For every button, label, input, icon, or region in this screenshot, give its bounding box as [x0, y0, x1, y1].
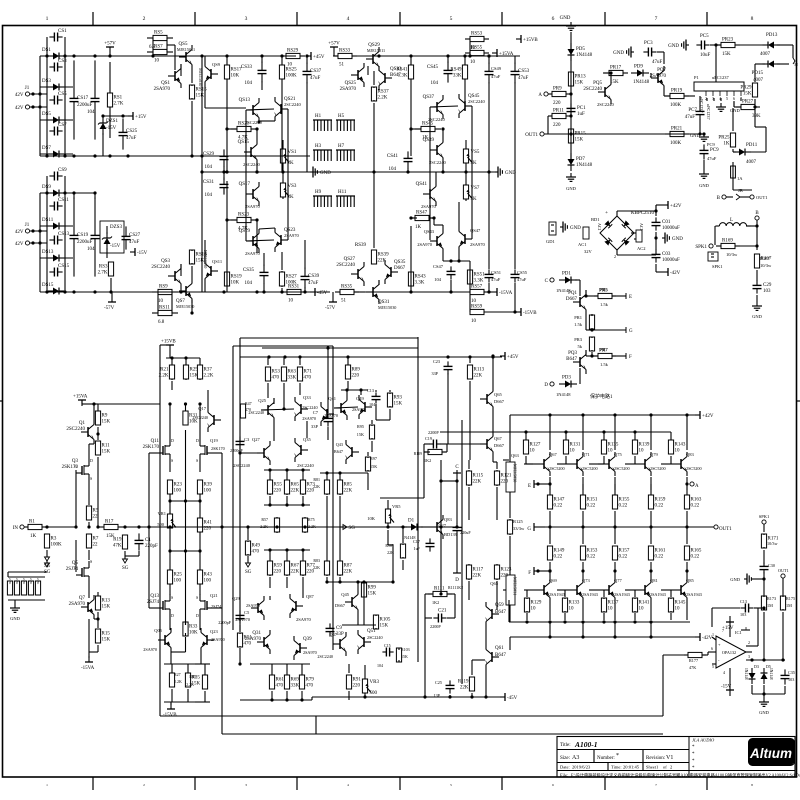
- transistor QS31: [366, 291, 373, 293]
- svg-text:CS13: CS13: [58, 232, 70, 237]
- wire mid bus: [202, 171, 310, 173]
- capacitor C15: [382, 651, 386, 653]
- svg-text:RS3: RS3: [99, 265, 108, 270]
- wire q13 gate: [149, 607, 157, 609]
- resistor R77: [302, 560, 304, 561]
- svg-text:2SC2240: 2SC2240: [317, 654, 333, 659]
- svg-text:IC1: IC1: [735, 630, 742, 635]
- svg-text:R33: R33: [189, 625, 198, 630]
- resistor RS9: [152, 291, 158, 293]
- svg-text:R111: R111: [434, 587, 445, 592]
- svg-text:R21: R21: [160, 368, 169, 373]
- resistor RS37: [373, 87, 375, 88]
- power +15V a: [128, 115, 133, 117]
- svg-text:100K: 100K: [286, 74, 298, 79]
- svg-text:H9: H9: [315, 190, 322, 195]
- resistor RS41: [410, 63, 412, 65]
- svg-text:2SA970: 2SA970: [340, 87, 357, 92]
- transistor QS1: [168, 75, 175, 77]
- svg-text:2: 2: [143, 16, 146, 22]
- svg-text:-45V: -45V: [317, 291, 328, 296]
- diode D3: [751, 668, 753, 673]
- ic pin wires: [699, 96, 701, 107]
- ground mid1: [310, 171, 313, 173]
- wire q21 gate: [213, 607, 222, 609]
- trimmer VR1: [169, 512, 171, 514]
- resistor R157: [614, 545, 616, 547]
- resistor R61: [271, 674, 273, 676]
- svg-text:A100-1: A100-1: [574, 740, 598, 749]
- ground pc5: [686, 44, 689, 46]
- svg-text:C3: C3: [244, 437, 250, 442]
- svg-text:PD7: PD7: [576, 157, 585, 162]
- svg-text:1A: 1A: [737, 176, 743, 181]
- svg-text:100: 100: [174, 579, 182, 584]
- transistor Q23b: [207, 639, 214, 641]
- svg-text:220: 220: [274, 489, 282, 494]
- svg-text:10: 10: [471, 319, 477, 324]
- wire rs911 l: [157, 292, 159, 313]
- svg-text:Q17: Q17: [198, 406, 206, 411]
- capacitor CS37: [306, 62, 308, 71]
- svg-text:RS31: RS31: [288, 285, 300, 290]
- svg-text:+15VA: +15VA: [499, 52, 514, 57]
- svg-text:Q13: Q13: [150, 594, 159, 599]
- svg-text:2: 2: [143, 783, 145, 787]
- wire qs13-21 base: [246, 109, 274, 110]
- dots d3d5: [750, 658, 753, 661]
- resistor RS39: [373, 249, 375, 251]
- wire pd15: [777, 63, 789, 65]
- transistor QS9: [211, 73, 218, 75]
- svg-text:QS35: QS35: [394, 260, 406, 265]
- svg-text:+57V: +57V: [328, 42, 340, 47]
- capacitor C9: [329, 623, 331, 628]
- svg-text:2.2K: 2.2K: [378, 96, 388, 101]
- svg-text:R123: R123: [501, 568, 512, 573]
- J1 pin1: [25, 92, 29, 96]
- IC P1 uPC1237: [694, 82, 744, 91]
- svg-text:4.7K: 4.7K: [238, 227, 248, 232]
- svg-text:51: 51: [339, 63, 345, 68]
- svg-text:PQ3: PQ3: [568, 351, 577, 356]
- svg-text:C19: C19: [425, 436, 432, 441]
- svg-text:104: 104: [205, 165, 213, 170]
- svg-text:Number:: Number:: [597, 756, 615, 761]
- svg-text:R57: R57: [261, 517, 268, 522]
- svg-text:C9: C9: [336, 626, 342, 631]
- svg-text:CS5: CS5: [58, 92, 67, 97]
- transistor PQ7: [651, 77, 658, 79]
- wire qs5 base: [180, 64, 182, 76]
- svg-text:R99: R99: [368, 586, 377, 591]
- svg-text:QS41: QS41: [416, 182, 428, 187]
- svg-text:47K: 47K: [113, 544, 122, 549]
- resistor RS25: [281, 63, 283, 65]
- transistor QS29: [366, 58, 373, 60]
- svg-text:Q33: Q33: [303, 395, 311, 400]
- svg-text:MJE15011: MJE15011: [367, 48, 385, 53]
- svg-text:0.22: 0.22: [587, 555, 596, 560]
- svg-text:GND: GND: [672, 237, 683, 242]
- svg-text:B647: B647: [566, 357, 577, 362]
- svg-text:1M: 1M: [786, 603, 792, 608]
- svg-text:R103: R103: [401, 647, 410, 652]
- svg-text:R125: R125: [513, 519, 524, 524]
- diode DS15: [48, 290, 53, 292]
- svg-text:H11: H11: [338, 190, 347, 195]
- svg-text:3: 3: [245, 783, 247, 787]
- svg-text:10K: 10K: [367, 516, 376, 521]
- resistor R135: [603, 439, 605, 441]
- wire bus top: [40, 55, 296, 57]
- wire f row: [586, 355, 598, 357]
- wire qs9: [204, 56, 206, 62]
- node OUT1 conn main: [714, 525, 718, 529]
- svg-text:R11: R11: [102, 444, 111, 449]
- wire pd13: [735, 44, 763, 46]
- svg-text:103: 103: [788, 677, 794, 682]
- svg-text:1N4148: 1N4148: [556, 392, 571, 397]
- svg-text:RS21: RS21: [238, 122, 250, 127]
- svg-text:33P: 33P: [336, 632, 344, 637]
- connector E: [612, 295, 626, 297]
- svg-text:-45V: -45V: [507, 696, 518, 701]
- svg-text:Q31: Q31: [252, 631, 261, 636]
- svg-text:100: 100: [204, 579, 212, 584]
- svg-text:G: G: [527, 527, 531, 532]
- svg-text:QS13: QS13: [239, 98, 251, 103]
- resistor R163: [686, 494, 688, 496]
- resistor R155: [614, 494, 616, 496]
- svg-text:RS53: RS53: [471, 32, 483, 37]
- svg-text:2: 2: [670, 765, 672, 770]
- resistor RS7: [147, 51, 153, 53]
- svg-text:QS17: QS17: [239, 182, 251, 187]
- svg-text:104: 104: [245, 81, 253, 86]
- svg-text:QS47: QS47: [470, 228, 481, 233]
- svg-text:10: 10: [675, 449, 681, 454]
- svg-text:PQ7: PQ7: [657, 68, 666, 73]
- svg-text:R109: R109: [414, 452, 422, 456]
- resistor RS23: [231, 219, 237, 221]
- svg-text:15K: 15K: [196, 94, 205, 99]
- power +42V bridge: [663, 204, 668, 206]
- transistor Q59: [492, 613, 499, 615]
- svg-text:SG: SG: [122, 566, 129, 571]
- connector GD1: [549, 222, 556, 235]
- resistor RS21: [231, 128, 237, 130]
- power +15VA b: [81, 400, 83, 406]
- svg-text:51: 51: [341, 299, 347, 304]
- transistor Q39: [300, 647, 307, 649]
- junctions bus2: [409, 54, 412, 57]
- resistor PR23: [716, 44, 721, 46]
- wire qs19-23 base: [246, 240, 274, 241]
- resistor R41: [199, 517, 201, 519]
- svg-text:2200uF: 2200uF: [77, 240, 93, 245]
- svg-text:+42V: +42V: [670, 204, 682, 209]
- svg-text:QS39: QS39: [423, 138, 435, 143]
- svg-text:GND: GND: [566, 186, 576, 191]
- svg-text:3.3K: 3.3K: [474, 279, 484, 284]
- svg-text:1: 1: [46, 16, 49, 22]
- resistor R141: [634, 598, 636, 599]
- svg-text:PQ1: PQ1: [568, 291, 577, 296]
- svg-text:3: 3: [245, 16, 248, 22]
- svg-text:VS3: VS3: [288, 184, 297, 189]
- svg-text:D: D: [171, 613, 174, 618]
- svg-text:RS57: RS57: [471, 285, 483, 290]
- capacitor CS5: [49, 99, 54, 101]
- svg-text:D667: D667: [566, 297, 578, 302]
- wire mid column x185: [185, 430, 187, 617]
- wire bus bottom: [40, 155, 310, 157]
- resistor RS15: [191, 85, 193, 86]
- dots bus292 ext: [409, 290, 412, 293]
- svg-text:C17: C17: [413, 539, 420, 544]
- diode 56: [48, 55, 53, 57]
- resistor R47: [242, 403, 244, 405]
- svg-text:-15VB: -15VB: [163, 713, 177, 718]
- dots row2: [275, 525, 278, 528]
- diode PD13: [762, 44, 768, 46]
- wire r-tops: [166, 357, 200, 359]
- svg-text:-57V: -57V: [325, 306, 336, 311]
- svg-text:2SC2240: 2SC2240: [233, 463, 251, 468]
- svg-text:Title:: Title:: [560, 743, 571, 748]
- wire q19 gate: [213, 452, 222, 454]
- svg-text:B647: B647: [334, 449, 343, 454]
- svg-text:220uF: 220uF: [460, 530, 471, 535]
- svg-text:R87: R87: [344, 564, 353, 569]
- svg-text:H7: H7: [338, 144, 345, 149]
- wire -42V rail: [510, 636, 697, 638]
- svg-text:CS39: CS39: [308, 274, 320, 279]
- svg-text:10: 10: [471, 299, 477, 304]
- svg-text:D: D: [171, 438, 174, 443]
- svg-text:2SC2240: 2SC2240: [284, 102, 302, 107]
- resistor R33: [185, 622, 187, 625]
- svg-text:2SC2240: 2SC2240: [66, 427, 85, 432]
- frame tick left: [0, 400, 3, 402]
- svg-text:3.3K: 3.3K: [415, 281, 425, 286]
- ground ic: [720, 103, 722, 107]
- svg-text:4: 4: [723, 670, 725, 675]
- capacitor C25: [449, 680, 451, 685]
- wire pc5: [710, 44, 721, 46]
- transistor QS37: [430, 106, 437, 108]
- svg-text:6: 6: [733, 96, 735, 101]
- svg-text:32: 32: [794, 62, 798, 67]
- svg-text:R9: R9: [102, 414, 108, 419]
- capacitor CS33: [261, 61, 263, 70]
- svg-text:RS7: RS7: [154, 45, 163, 50]
- svg-text:Q11: Q11: [151, 439, 160, 444]
- resistor R129: [526, 598, 528, 599]
- frame ticks top: [92, 12, 94, 26]
- svg-text:GND: GND: [730, 577, 740, 582]
- resistor RS17: [226, 63, 228, 65]
- resistor R93: [389, 393, 391, 394]
- svg-text:C1: C1: [145, 538, 151, 543]
- svg-text:2SC5200: 2SC5200: [614, 466, 630, 471]
- resistor RS59: [469, 311, 471, 313]
- jfet Q13: [157, 607, 163, 609]
- transistor QS41: [423, 193, 430, 195]
- svg-text:Q59: Q59: [495, 603, 504, 608]
- svg-text:R69: R69: [291, 678, 300, 683]
- svg-text:R71: R71: [304, 370, 313, 375]
- svg-text:PR27: PR27: [742, 100, 754, 105]
- input filter resistor bank: [8, 576, 45, 578]
- power +45V node1: [306, 55, 311, 57]
- svg-text:20:01:45: 20:01:45: [623, 765, 640, 770]
- wire ladder 1: [40, 86, 73, 88]
- junction dots psu1 bus: [38, 92, 41, 95]
- resistor R87: [339, 560, 341, 561]
- svg-text:F: F: [629, 355, 632, 360]
- svg-text:2SK170: 2SK170: [143, 445, 160, 450]
- svg-text:0.22: 0.22: [554, 555, 563, 560]
- capacitor CS7: [49, 130, 54, 132]
- resistor R45b: [204, 674, 206, 676]
- svg-text:15K: 15K: [722, 52, 731, 57]
- svg-text:R157: R157: [619, 549, 630, 554]
- diode DS11: [48, 225, 53, 227]
- svg-text:10: 10: [288, 299, 294, 304]
- svg-text:uPC1237: uPC1237: [706, 104, 711, 120]
- svg-text:C29: C29: [763, 283, 772, 288]
- svg-text:100: 100: [204, 489, 212, 494]
- capacitor CS19: [73, 197, 75, 235]
- svg-text:R177: R177: [689, 658, 698, 663]
- resistor RS19: [226, 272, 228, 279]
- svg-text:47uF: 47uF: [685, 115, 696, 120]
- transistor Q77: [602, 589, 609, 591]
- svg-text:R159: R159: [655, 498, 666, 503]
- power -15VA c: [492, 291, 497, 293]
- svg-text:42V: 42V: [15, 106, 24, 111]
- trimmer VR3: [364, 677, 366, 679]
- svg-text:0.22: 0.22: [587, 504, 596, 509]
- JB pin OUT1: [750, 195, 754, 199]
- wire ladder 3: [40, 153, 73, 155]
- svg-text:104: 104: [377, 663, 383, 668]
- wire psu2 top: [40, 192, 95, 194]
- svg-text:R61: R61: [276, 678, 285, 683]
- wire mid out line: [118, 526, 457, 528]
- svg-text:220: 220: [501, 574, 509, 579]
- svg-text:R81: R81: [313, 477, 320, 482]
- resistor R167: [756, 253, 758, 255]
- power +42V rail: [695, 414, 700, 416]
- svg-text:C13: C13: [367, 388, 374, 393]
- svg-text:Q51: Q51: [367, 629, 376, 634]
- svg-text:AC1: AC1: [578, 242, 587, 247]
- wire base rail top: [440, 431, 671, 433]
- connector AC1: [583, 227, 589, 239]
- svg-text:Q83: Q83: [686, 452, 694, 457]
- transistor Q41: [334, 407, 341, 409]
- resistor R111: [428, 593, 433, 595]
- svg-text:470: 470: [276, 684, 284, 689]
- svg-text:470: 470: [304, 376, 312, 381]
- svg-text:DS7: DS7: [42, 146, 51, 151]
- resistor R165: [686, 545, 688, 547]
- svg-text:SG: SG: [349, 526, 356, 531]
- svg-text:PR29: PR29: [740, 86, 752, 91]
- svg-text:VR3: VR3: [370, 680, 380, 685]
- capacitor C27: [456, 523, 458, 527]
- title block inner lines: [557, 749, 689, 751]
- svg-text:CS53: CS53: [518, 69, 530, 74]
- svg-text:-15V: -15V: [137, 251, 148, 256]
- svg-text:Time:: Time:: [611, 765, 622, 770]
- svg-text:D3: D3: [754, 664, 759, 669]
- wire q4149 base: [334, 407, 358, 408]
- resistor RS53: [465, 38, 470, 40]
- wire y348: [262, 347, 418, 349]
- svg-text:Q77: Q77: [614, 578, 622, 583]
- capacitor CS29: [223, 149, 225, 156]
- svg-text:10uF: 10uF: [700, 53, 711, 58]
- svg-text:1uF: 1uF: [413, 546, 420, 551]
- svg-text:R17: R17: [105, 520, 114, 525]
- svg-text:2.2K: 2.2K: [8, 578, 12, 585]
- svg-text:33K: 33K: [291, 684, 300, 689]
- svg-text:5k: 5k: [578, 344, 583, 349]
- wire rs911 r: [171, 292, 173, 313]
- svg-text:CS47: CS47: [433, 264, 444, 269]
- wire +42V rail: [510, 414, 697, 416]
- trimmer VS5: [465, 147, 467, 149]
- svg-text:QS1: QS1: [161, 81, 170, 86]
- transistor PQ5: [598, 91, 605, 93]
- svg-text:15K: 15K: [192, 682, 201, 687]
- dots row 551: [168, 549, 171, 552]
- svg-text:0.22: 0.22: [691, 555, 700, 560]
- resistor R109: [424, 451, 428, 453]
- resistor R161: [650, 545, 652, 547]
- svg-text:QS25: QS25: [345, 81, 357, 86]
- wire out1a: [544, 133, 700, 135]
- wire dzs1 h: [103, 115, 128, 117]
- svg-text:R139: R139: [639, 443, 650, 448]
- svg-text:A3: A3: [572, 755, 579, 761]
- svg-text:RS49: RS49: [450, 68, 462, 73]
- svg-text:保护电路1: 保护电路1: [590, 393, 613, 400]
- svg-text:SPK1: SPK1: [712, 264, 723, 269]
- svg-text:R55: R55: [274, 483, 283, 488]
- svg-text:Q63: Q63: [511, 453, 519, 458]
- svg-text:47uF: 47uF: [129, 240, 140, 245]
- transistor Q05: [158, 639, 165, 641]
- resistor RS1: [109, 62, 111, 93]
- svg-text:GND: GND: [613, 51, 624, 56]
- svg-text:2SC2240: 2SC2240: [367, 635, 383, 640]
- svg-text:0.22: 0.22: [655, 504, 664, 509]
- node C conn: [550, 278, 554, 282]
- svg-text:1K2: 1K2: [424, 458, 431, 463]
- svg-text:15K: 15K: [357, 432, 364, 437]
- capacitor CS51: [488, 269, 490, 274]
- wire qs25 base: [367, 66, 369, 75]
- svg-text:10: 10: [639, 449, 645, 454]
- svg-text:2SA970: 2SA970: [296, 617, 312, 622]
- svg-text:R127: R127: [530, 443, 541, 448]
- resistor R13: [97, 595, 99, 597]
